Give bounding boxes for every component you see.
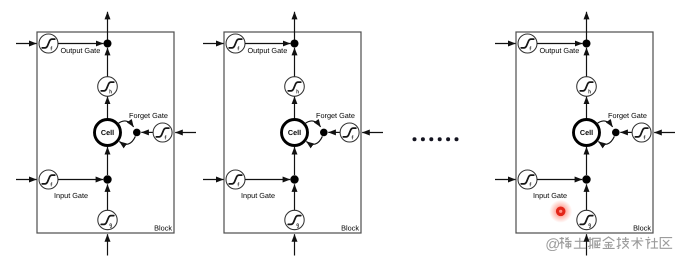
svg-text:@: @ [545, 237, 560, 253]
